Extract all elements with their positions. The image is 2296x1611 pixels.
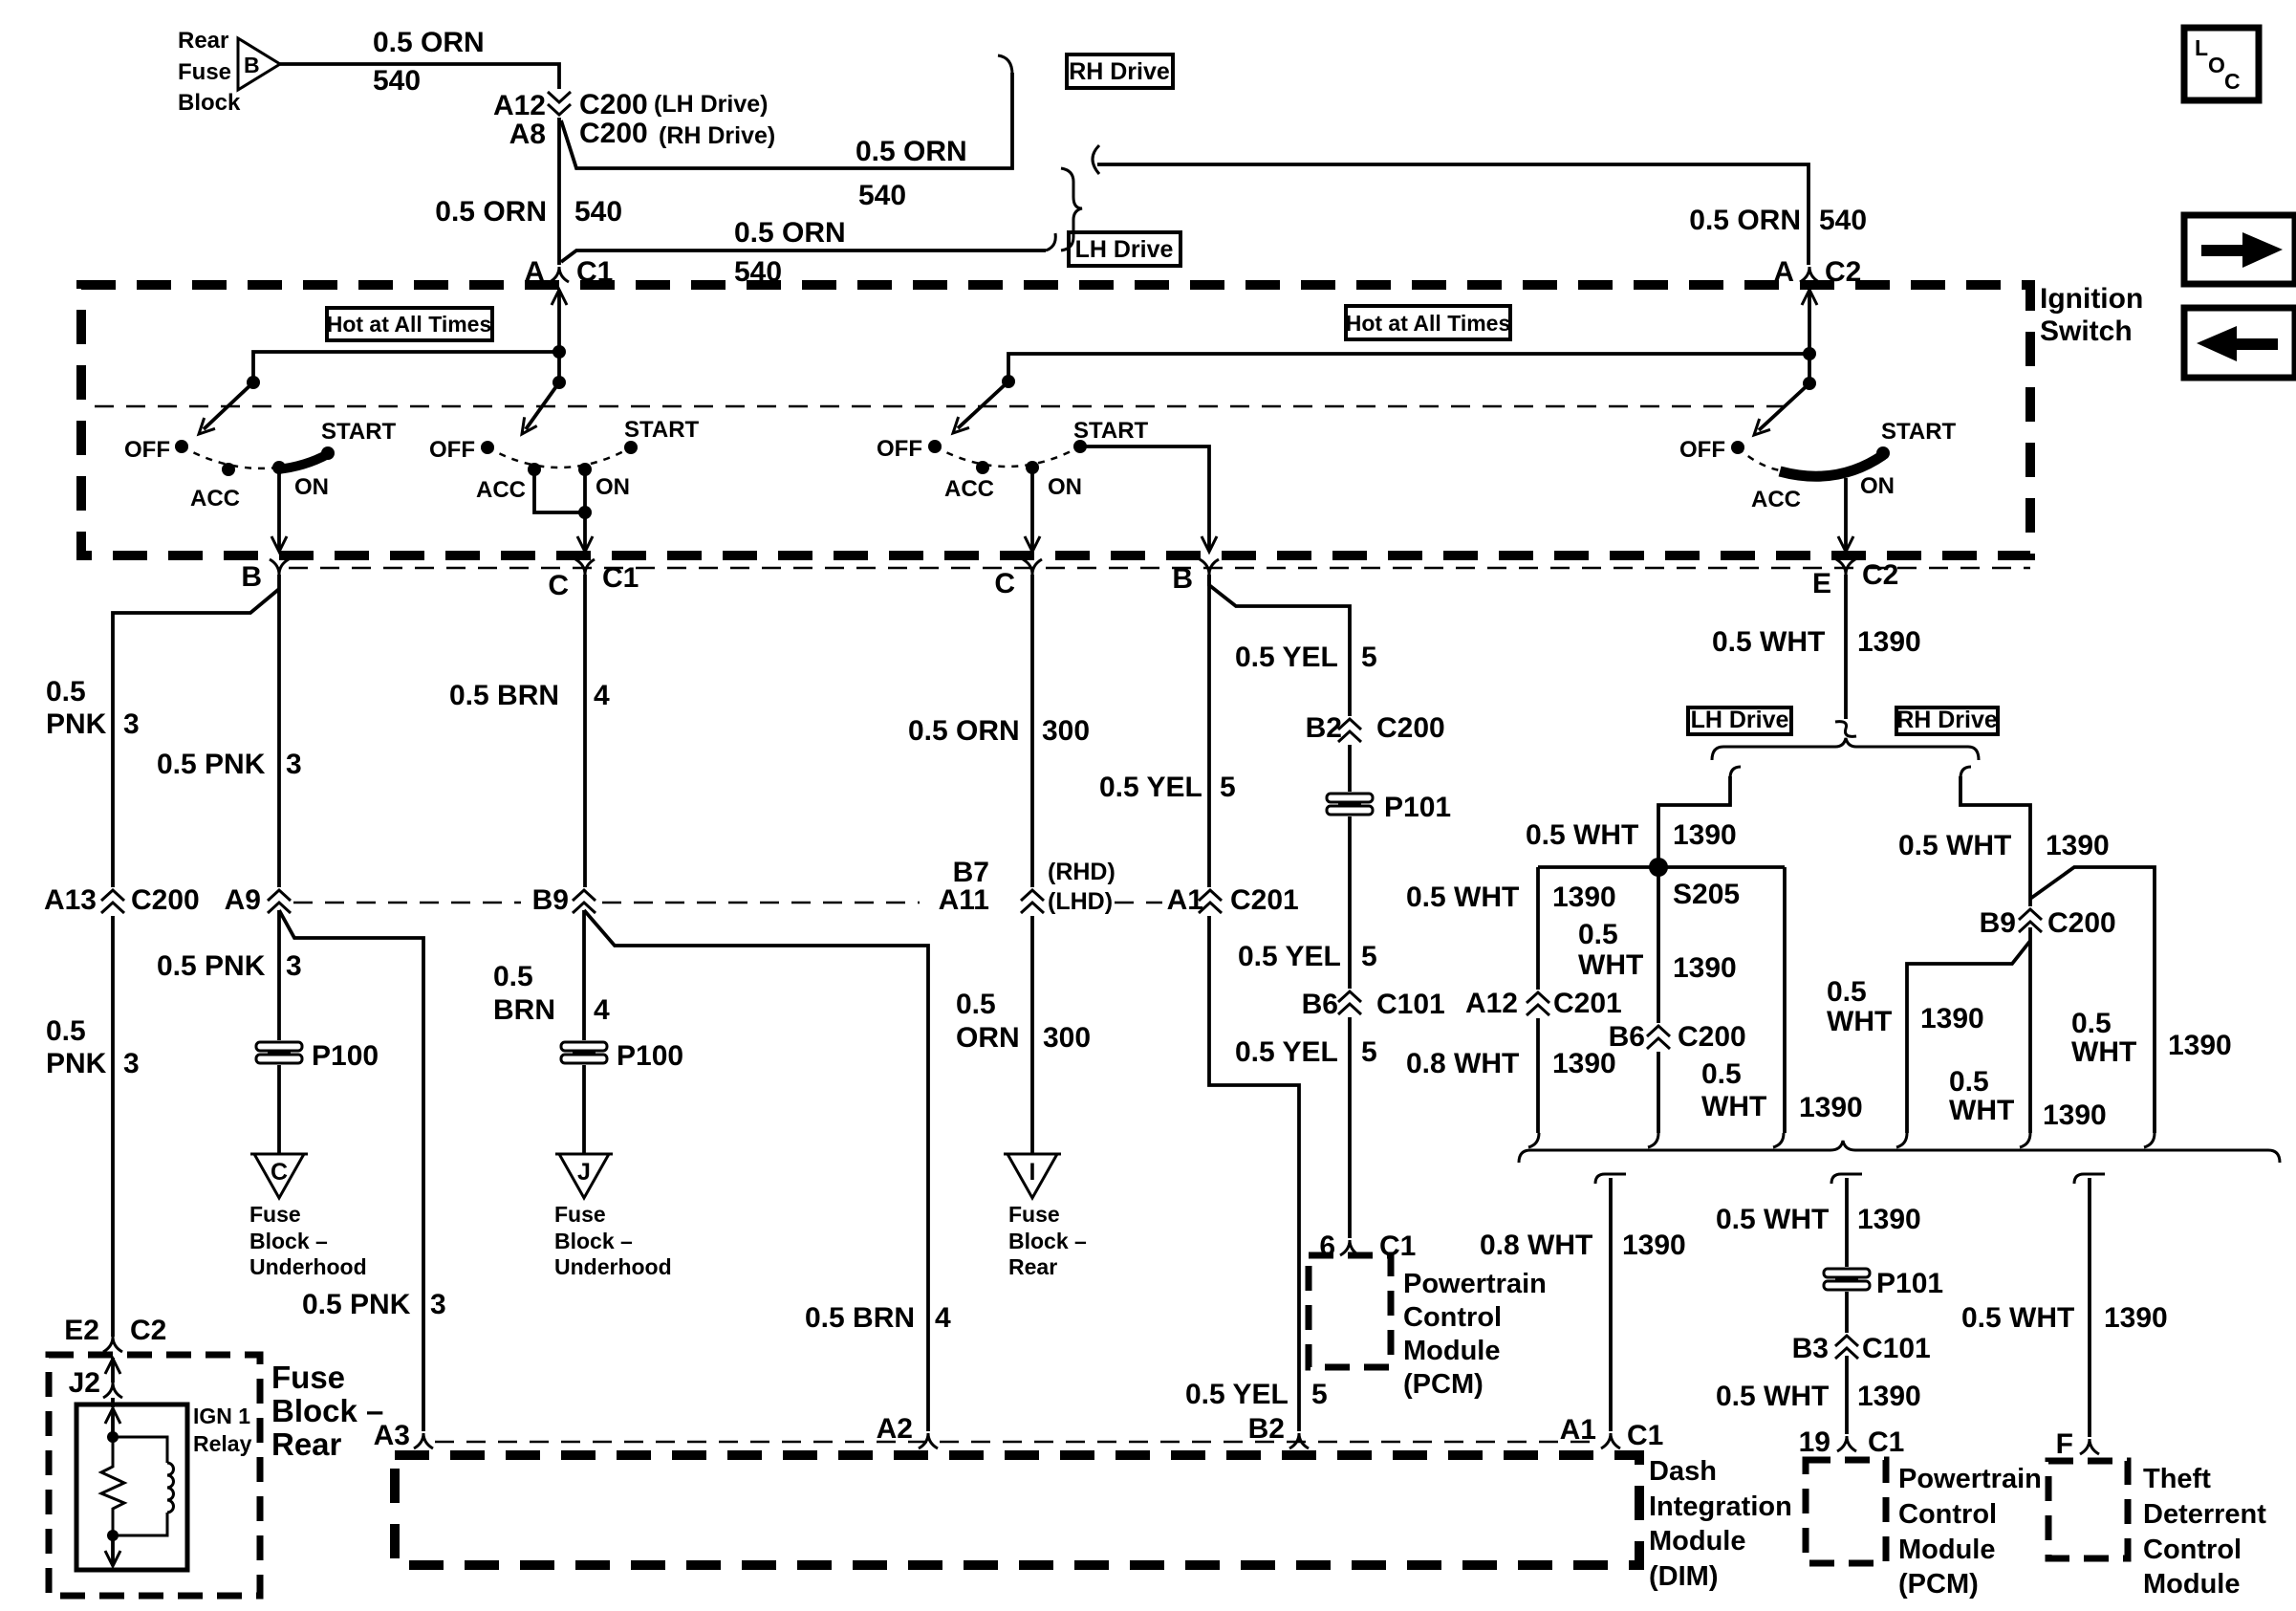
- Hot at All Times wire (left): [253, 352, 559, 382]
- switch 3 output wire C: [1030, 468, 1034, 549]
- wire C1 column down: [583, 575, 587, 894]
- svg-text:Fuse: Fuse: [249, 1202, 301, 1227]
- svg-text:540: 540: [373, 65, 421, 97]
- wire B column down: [277, 575, 281, 894]
- wire end hook: [2020, 1133, 2030, 1147]
- wire into fuse block rear with arrow: [111, 1358, 115, 1382]
- svg-text:Fuse: Fuse: [271, 1360, 345, 1395]
- svg-text:L: L: [2195, 35, 2208, 60]
- svg-text:A2: A2: [877, 1413, 913, 1445]
- wire diagonal below B9 to inner wire: [1907, 941, 2030, 1133]
- svg-text:ACC: ACC: [190, 486, 240, 512]
- wire to junction: [111, 1408, 115, 1437]
- svg-text:Underhood: Underhood: [249, 1254, 367, 1279]
- wire riser A C2: [1808, 290, 1811, 383]
- wire end hook: [1896, 1133, 1907, 1147]
- svg-text:0.5 WHT: 0.5 WHT: [1716, 1381, 1829, 1412]
- connector B3 C101: [1832, 1333, 1861, 1361]
- LH Drive box: [1688, 708, 1791, 734]
- IGN 1 Relay box: [76, 1404, 187, 1570]
- svg-text:Control: Control: [1403, 1302, 1502, 1333]
- wire LH drive branch 0.5 ORN 540: [561, 250, 1046, 262]
- junction: [1803, 347, 1816, 360]
- svg-text:F: F: [2056, 1428, 2073, 1460]
- svg-text:C: C: [2224, 69, 2241, 94]
- big gathering brace: [1519, 1141, 2280, 1163]
- svg-text:START: START: [1881, 419, 1957, 445]
- svg-text:5: 5: [1361, 642, 1377, 673]
- svg-text:RH Drive: RH Drive: [1069, 58, 1170, 85]
- junction: [1803, 377, 1816, 390]
- harness break on E wire: [1835, 722, 1856, 737]
- connector A9: [265, 887, 293, 916]
- svg-text:Switch: Switch: [2040, 316, 2133, 347]
- svg-text:WHT: WHT: [1827, 1006, 1892, 1037]
- svg-text:B9: B9: [532, 884, 569, 916]
- svg-text:Control: Control: [2143, 1535, 2242, 1565]
- svg-text:Block –: Block –: [1008, 1229, 1087, 1253]
- fuse block triangle J: [555, 1154, 613, 1198]
- svg-text:START: START: [321, 419, 397, 445]
- switch 4 wiper arrow: [1759, 383, 1809, 430]
- svg-text:Rear: Rear: [1008, 1254, 1057, 1279]
- svg-text:Powertrain: Powertrain: [1403, 1269, 1547, 1299]
- switch 2 ACC-ON bridge: [534, 469, 585, 512]
- PCM box 1: [1309, 1255, 1391, 1367]
- junction: [552, 376, 566, 389]
- middle 1390 wire (S205 down): [1657, 867, 1660, 1133]
- thin dashed connector line below ignition switch: [289, 567, 2030, 570]
- svg-text:WHT: WHT: [1949, 1095, 2014, 1126]
- svg-text:Theft: Theft: [2143, 1464, 2211, 1494]
- wire B column left YEL wire: [1209, 575, 1299, 1431]
- svg-text:0.5 WHT: 0.5 WHT: [1712, 626, 1825, 658]
- svg-text:P100: P100: [312, 1040, 379, 1072]
- svg-text:0.5 ORN: 0.5 ORN: [435, 196, 547, 228]
- svg-text:0.5: 0.5: [1827, 976, 1867, 1008]
- svg-text:0.5 YEL: 0.5 YEL: [1099, 772, 1202, 803]
- svg-text:A12: A12: [1465, 988, 1518, 1019]
- svg-text:1390: 1390: [1857, 1204, 1921, 1235]
- svg-text:PNK: PNK: [46, 1048, 107, 1079]
- svg-text:B3: B3: [1792, 1333, 1829, 1364]
- connector C200 A12/A8: [545, 89, 574, 118]
- svg-text:B: B: [244, 53, 260, 77]
- svg-text:B2: B2: [1248, 1413, 1285, 1445]
- connector 19 C1: [1837, 1436, 1856, 1451]
- svg-text:0.8 WHT: 0.8 WHT: [1480, 1230, 1592, 1261]
- svg-text:5: 5: [1311, 1379, 1328, 1410]
- wire branch A9 to A3: [279, 910, 423, 1431]
- svg-text:1390: 1390: [1552, 1048, 1616, 1079]
- svg-text:B9: B9: [1980, 907, 2016, 939]
- connector 6 C1 (PCM): [1340, 1240, 1359, 1255]
- svg-text:Block: Block: [178, 90, 241, 116]
- wire down: [1845, 1356, 1849, 1434]
- svg-text:C2: C2: [1862, 559, 1898, 591]
- svg-text:0.5 YEL: 0.5 YEL: [1235, 642, 1338, 673]
- svg-text:Ignition: Ignition: [2040, 283, 2143, 315]
- svg-text:5: 5: [1220, 772, 1236, 803]
- svg-text:B: B: [241, 561, 262, 593]
- svg-text:0.5 WHT: 0.5 WHT: [1716, 1204, 1829, 1235]
- RH Drive box: [1896, 708, 1998, 734]
- connector A3: [414, 1433, 433, 1448]
- svg-text:P100: P100: [617, 1040, 683, 1072]
- svg-text:START: START: [1073, 418, 1149, 444]
- svg-text:START: START: [624, 417, 700, 443]
- switch 1 wiper arrow: [204, 382, 253, 429]
- svg-text:Underhood: Underhood: [554, 1254, 672, 1279]
- svg-text:B6: B6: [1302, 989, 1338, 1020]
- svg-text:1390: 1390: [1857, 626, 1921, 658]
- connector A1 C1: [1601, 1433, 1620, 1448]
- switch 2 dashed arc: [487, 447, 631, 468]
- drop wire to Theft Deterrent F: [2074, 1174, 2105, 1184]
- svg-text:A12: A12: [493, 90, 546, 121]
- svg-text:E2: E2: [64, 1315, 99, 1346]
- svg-text:4: 4: [935, 1302, 951, 1334]
- svg-text:OFF: OFF: [429, 437, 475, 463]
- svg-text:1390: 1390: [1552, 882, 1616, 913]
- connector A C2: [1800, 267, 1819, 282]
- connector A1 C201: [1196, 887, 1224, 916]
- switch 4 dashed arc OFF-ACC: [1738, 447, 1780, 470]
- Theft Deterrent box: [2048, 1461, 2128, 1558]
- connector line C200/C201 thin dashed: [293, 902, 1162, 904]
- svg-text:Rear: Rear: [178, 28, 228, 54]
- switch 3 START output wire to B: [1080, 446, 1209, 549]
- wire 0.5 ORN 540 to ignition switch A C2: [1097, 164, 1809, 265]
- junction: [107, 1431, 119, 1443]
- svg-text:A1: A1: [1167, 884, 1203, 916]
- svg-text:1390: 1390: [2046, 830, 2110, 861]
- svg-text:Block –: Block –: [271, 1393, 383, 1428]
- svg-text:ON: ON: [596, 474, 630, 500]
- switch 1 dashed arc: [182, 446, 328, 468]
- LH Drive box: [1069, 232, 1180, 266]
- svg-text:ON: ON: [1048, 474, 1082, 500]
- svg-text:Integration: Integration: [1649, 1491, 1792, 1522]
- wire end hook: [1528, 1133, 1539, 1147]
- svg-text:0.5 WHT: 0.5 WHT: [1898, 830, 2011, 861]
- svg-text:1390: 1390: [1799, 1092, 1863, 1123]
- svg-text:C101: C101: [1862, 1333, 1931, 1364]
- svg-text:0.5 ORN: 0.5 ORN: [1689, 205, 1801, 236]
- svg-text:(PCM): (PCM): [1898, 1569, 1979, 1600]
- connector F: [2080, 1439, 2099, 1454]
- wire E C2 down: [1844, 575, 1848, 719]
- svg-text:0.5 PNK: 0.5 PNK: [157, 749, 266, 780]
- svg-text:0.5 BRN: 0.5 BRN: [805, 1302, 915, 1334]
- svg-text:Rear: Rear: [271, 1426, 342, 1462]
- wire to relay bottom with arrow: [111, 1535, 115, 1565]
- svg-text:C1: C1: [1379, 1230, 1416, 1262]
- svg-text:O: O: [2208, 53, 2225, 77]
- switch 1 thick contact arc ON-START: [277, 454, 328, 469]
- wire B9 down to P100: [582, 910, 586, 1040]
- grommet P100: [559, 1040, 609, 1065]
- svg-text:1390: 1390: [2168, 1030, 2232, 1061]
- connector J2: [103, 1382, 122, 1398]
- svg-text:E: E: [1812, 568, 1831, 599]
- junction: [1002, 375, 1015, 388]
- svg-text:0.5 ORN: 0.5 ORN: [908, 715, 1020, 747]
- RH sub-wire with hook: [1960, 767, 1971, 778]
- svg-text:P101: P101: [1876, 1268, 1943, 1299]
- Rear Fuse Block triangle B: [238, 38, 280, 90]
- connector B9: [570, 887, 598, 916]
- fuse block triangle I: [1004, 1154, 1061, 1198]
- svg-text:0.5 WHT: 0.5 WHT: [1526, 819, 1638, 851]
- svg-text:0.8 WHT: 0.8 WHT: [1406, 1048, 1519, 1079]
- svg-text:Powertrain: Powertrain: [1898, 1464, 2042, 1494]
- svg-text:(RH Drive): (RH Drive): [659, 122, 775, 149]
- Hot at All Times box 2: [1346, 306, 1510, 339]
- wire to fuse block triangle: [277, 1065, 281, 1154]
- svg-text:3: 3: [286, 749, 302, 780]
- svg-text:ACC: ACC: [1751, 487, 1801, 512]
- svg-text:1390: 1390: [1920, 1003, 1984, 1034]
- Hot at All Times wire (right): [1008, 354, 1809, 381]
- svg-text:540: 540: [1819, 205, 1867, 236]
- wire A9 down to P100: [277, 910, 281, 1040]
- Fuse Block Rear dashed box: [49, 1355, 260, 1596]
- connector E2 C2: [103, 1337, 122, 1352]
- switch 4 output wire E: [1844, 478, 1848, 549]
- svg-text:PNK: PNK: [46, 708, 107, 740]
- svg-text:C: C: [271, 1159, 288, 1186]
- connector B (switch3): [1200, 559, 1219, 575]
- svg-text:C: C: [994, 568, 1015, 599]
- connector B6 C200: [1644, 1023, 1673, 1052]
- drop wire to DIM A1 C1: [1595, 1174, 1626, 1184]
- switch 4 thick contact arc ACC-ON-START: [1780, 455, 1883, 476]
- relay coil: [113, 1437, 174, 1535]
- switch 1 contacts OFF ACC ON START: [175, 440, 188, 453]
- svg-text:LH Drive: LH Drive: [1691, 707, 1789, 733]
- svg-text:(LH Drive): (LH Drive): [654, 91, 768, 118]
- thin dashed pivot line inside switch: [95, 405, 1795, 408]
- drop wire to PCM 19 C1: [1831, 1174, 1862, 1184]
- svg-text:0.5 YEL: 0.5 YEL: [1238, 941, 1341, 972]
- svg-text:P101: P101: [1384, 792, 1451, 823]
- svg-text:4: 4: [594, 994, 610, 1026]
- svg-text:540: 540: [574, 196, 622, 228]
- svg-text:C1: C1: [1868, 1426, 1904, 1458]
- svg-text:ORN: ORN: [956, 1022, 1020, 1054]
- svg-text:0.5: 0.5: [956, 989, 996, 1020]
- RH Drive box: [1067, 54, 1173, 88]
- svg-text:540: 540: [858, 180, 906, 211]
- switch 4 contacts: [1731, 441, 1744, 454]
- svg-text:C101: C101: [1376, 989, 1445, 1020]
- svg-text:0.5 YEL: 0.5 YEL: [1235, 1036, 1338, 1068]
- connector B2 (DIM): [1289, 1433, 1309, 1448]
- switch 2 output wire C: [583, 469, 587, 549]
- harness brace joining LH/RH variants: [1061, 168, 1082, 250]
- svg-text:0.5: 0.5: [1701, 1058, 1742, 1090]
- connector B6 C101: [1335, 989, 1364, 1017]
- svg-text:OFF: OFF: [124, 437, 170, 463]
- svg-text:1390: 1390: [1673, 952, 1737, 984]
- S205 bus wire: [1538, 865, 1785, 869]
- right wire of S205 group: [1783, 867, 1787, 1133]
- wire end hook: [1648, 1133, 1658, 1147]
- svg-text:Block –: Block –: [249, 1229, 328, 1253]
- svg-text:B2: B2: [1306, 712, 1342, 744]
- junction: [552, 345, 566, 359]
- switch 3 contacts: [928, 440, 942, 453]
- svg-text:1390: 1390: [1622, 1230, 1686, 1261]
- svg-text:B6: B6: [1609, 1021, 1645, 1053]
- right arrow box: [2184, 215, 2295, 284]
- svg-text:(DIM): (DIM): [1649, 1561, 1718, 1592]
- svg-text:C1: C1: [1627, 1420, 1663, 1451]
- svg-text:4: 4: [594, 680, 610, 711]
- svg-text:C2: C2: [130, 1315, 166, 1346]
- svg-text:0.5 WHT: 0.5 WHT: [1961, 1302, 2074, 1334]
- connector B2 C200: [1335, 716, 1364, 745]
- LH sub-wire with hook: [1730, 767, 1741, 778]
- connector E C2: [1836, 559, 1855, 575]
- svg-text:C201: C201: [1553, 988, 1622, 1019]
- svg-text:BRN: BRN: [493, 994, 555, 1026]
- splice S205: [1649, 858, 1668, 877]
- wire riser A C1: [557, 290, 561, 382]
- LOC box: [2184, 28, 2259, 100]
- wire below B9 continuing down: [2028, 927, 2032, 1133]
- svg-text:WHT: WHT: [1701, 1091, 1766, 1122]
- svg-text:IGN 1: IGN 1: [193, 1404, 250, 1428]
- svg-text:C200: C200: [1678, 1021, 1746, 1053]
- arrow into switch from A C2: [1802, 290, 1817, 305]
- connector A13 C200: [98, 887, 127, 916]
- svg-text:C200: C200: [579, 89, 648, 120]
- svg-text:0.5 PNK: 0.5 PNK: [302, 1289, 411, 1320]
- svg-text:A9: A9: [225, 884, 261, 916]
- svg-text:Module: Module: [1403, 1336, 1501, 1366]
- wire to fuse block triangle J: [582, 1065, 586, 1154]
- svg-text:0.5 PNK: 0.5 PNK: [157, 950, 266, 982]
- svg-text:0.5: 0.5: [46, 1015, 86, 1047]
- connector C C1: [575, 559, 595, 575]
- svg-text:0.5 ORN: 0.5 ORN: [856, 136, 967, 167]
- connector C (switch3): [1023, 559, 1042, 575]
- svg-text:WHT: WHT: [1578, 949, 1643, 981]
- wire to relay: [111, 1398, 115, 1407]
- svg-text:3: 3: [430, 1289, 446, 1320]
- wire end hook: [2144, 1133, 2155, 1147]
- svg-text:A11: A11: [939, 884, 989, 916]
- relay resistor: [101, 1437, 124, 1535]
- junction: [107, 1530, 119, 1541]
- svg-text:A8: A8: [509, 119, 546, 150]
- svg-text:3: 3: [286, 950, 302, 982]
- svg-text:0.5 ORN: 0.5 ORN: [373, 27, 485, 58]
- svg-text:Fuse: Fuse: [554, 1202, 606, 1227]
- arrow into switch from A C1: [552, 290, 567, 305]
- connector A12 C201: [1524, 990, 1552, 1018]
- svg-text:Deterrent: Deterrent: [2143, 1499, 2266, 1530]
- wire 0.5 ORN 540 down to ignition switch A C1: [557, 118, 561, 265]
- svg-text:Control: Control: [1898, 1499, 1997, 1530]
- wire ORN column down: [1030, 575, 1034, 1154]
- svg-text:C200: C200: [2047, 907, 2116, 939]
- svg-text:(RHD): (RHD): [1048, 859, 1116, 885]
- connector B9 C200: [2016, 906, 2045, 935]
- svg-text:C200: C200: [1376, 712, 1445, 744]
- wire RH drive branch 0.5 ORN 540: [561, 73, 1012, 168]
- svg-text:Block –: Block –: [554, 1229, 633, 1253]
- svg-text:1390: 1390: [2043, 1099, 2107, 1131]
- svg-text:OFF: OFF: [877, 436, 922, 462]
- svg-text:1390: 1390: [2104, 1302, 2168, 1334]
- svg-text:0.5: 0.5: [1949, 1066, 1989, 1098]
- brace splitting LH/RH drive: [1712, 738, 1979, 760]
- svg-text:(PCM): (PCM): [1403, 1369, 1484, 1400]
- thin dashed DIM connector line: [435, 1441, 1598, 1444]
- svg-text:C: C: [548, 570, 569, 601]
- svg-text:300: 300: [1042, 715, 1090, 747]
- svg-text:C200: C200: [579, 118, 648, 149]
- svg-text:0.5 ORN: 0.5 ORN: [734, 217, 846, 249]
- svg-text:I: I: [1029, 1159, 1036, 1186]
- wire branch from B to A13 column: [113, 589, 279, 1337]
- svg-text:A13: A13: [44, 884, 97, 916]
- grommet P101: [1822, 1267, 1872, 1292]
- fuse block triangle C: [250, 1154, 308, 1198]
- svg-text:5: 5: [1361, 941, 1377, 972]
- svg-text:Relay: Relay: [193, 1431, 252, 1456]
- svg-text:300: 300: [1043, 1022, 1091, 1054]
- svg-text:J2: J2: [69, 1367, 100, 1399]
- left 1390 wire: [1536, 867, 1540, 1133]
- grommet P100: [254, 1040, 304, 1065]
- svg-text:5: 5: [1361, 1036, 1377, 1068]
- svg-text:Module: Module: [1898, 1535, 1996, 1565]
- svg-text:C200: C200: [131, 884, 200, 916]
- connector B: [270, 559, 289, 575]
- svg-text:WHT: WHT: [2071, 1036, 2136, 1068]
- switch 2 contacts: [481, 441, 494, 454]
- svg-text:Fuse: Fuse: [1008, 1202, 1060, 1227]
- wire 0.5 ORN 540 from rear fuse block: [280, 64, 559, 96]
- svg-text:3: 3: [123, 708, 140, 740]
- svg-text:3: 3: [123, 1048, 140, 1079]
- junction: [247, 376, 260, 389]
- svg-text:1390: 1390: [1673, 819, 1737, 851]
- svg-text:Dash: Dash: [1649, 1456, 1717, 1487]
- left arrow box: [2184, 308, 2295, 378]
- svg-text:ON: ON: [1860, 473, 1895, 499]
- svg-text:ACC: ACC: [476, 477, 526, 503]
- switch 1 output wire B: [277, 468, 281, 549]
- wire end hook: [1773, 1133, 1784, 1147]
- switch 3 wiper arrow: [958, 381, 1008, 428]
- svg-text:0.5: 0.5: [1578, 919, 1618, 950]
- svg-text:0.5: 0.5: [46, 676, 86, 708]
- svg-text:0.5: 0.5: [2071, 1008, 2112, 1039]
- wire down: [1845, 1292, 1849, 1337]
- svg-text:Hot at All Times: Hot at All Times: [1346, 311, 1511, 336]
- svg-text:RH Drive: RH Drive: [1896, 707, 1998, 733]
- wire branch B9 to A2: [584, 910, 928, 1431]
- connector B7(RHD) A11(LHD) C201: [1018, 887, 1047, 916]
- DIM box: [395, 1455, 1639, 1565]
- svg-text:Module: Module: [2143, 1569, 2241, 1600]
- svg-text:J: J: [577, 1159, 591, 1186]
